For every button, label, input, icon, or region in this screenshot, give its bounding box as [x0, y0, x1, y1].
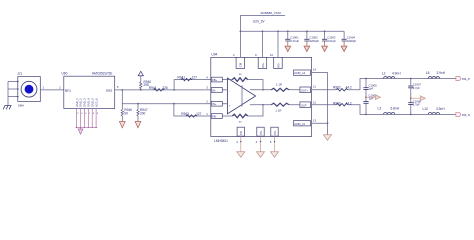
- svg-text:226: 226: [162, 86, 168, 90]
- svg-text:13: 13: [313, 118, 317, 122]
- svg-text:127: 127: [196, 112, 202, 116]
- svg-text:VS-: VS-: [273, 130, 277, 135]
- svg-text:50: 50: [124, 112, 128, 116]
- svg-text:10: 10: [270, 53, 274, 57]
- svg-text:CM: CM: [239, 62, 243, 67]
- svg-text:L10: L10: [423, 107, 429, 111]
- svg-text:12: 12: [313, 100, 317, 104]
- svg-text:R963: R963: [333, 101, 341, 105]
- svg-text:R962: R962: [333, 85, 341, 89]
- svg-text:VS-: VS-: [259, 130, 263, 135]
- svg-text:GND_2: GND_2: [79, 98, 83, 107]
- svg-text:L2: L2: [382, 71, 386, 75]
- svg-text:ADR680_VCM: ADR680_VCM: [260, 11, 281, 15]
- svg-text:3.9nH: 3.9nH: [436, 107, 445, 111]
- svg-text:3.9nH: 3.9nH: [437, 71, 446, 75]
- svg-text:R944: R944: [149, 86, 157, 90]
- svg-text:ACG_6: ACG_6: [94, 98, 98, 107]
- svg-text:1pF: 1pF: [369, 87, 374, 91]
- svg-text:4.9nH: 4.9nH: [392, 71, 401, 75]
- svg-text:IN6_P: IN6_P: [462, 77, 470, 81]
- svg-text:GND_14: GND_14: [294, 71, 305, 75]
- svg-text:OUT-: OUT-: [301, 103, 308, 107]
- svg-text:0.01uF: 0.01uF: [327, 39, 336, 43]
- svg-text:127: 127: [192, 75, 198, 79]
- svg-text:R941: R941: [178, 76, 186, 80]
- svg-text:GND_3: GND_3: [83, 98, 87, 107]
- svg-text:FB-: FB-: [212, 115, 217, 119]
- svg-text:11: 11: [313, 84, 316, 88]
- svg-text:200: 200: [140, 112, 146, 116]
- svg-text:U20_3V: U20_3V: [253, 19, 265, 23]
- svg-text:VS+: VS+: [276, 62, 280, 68]
- svg-text:RF1: RF1: [65, 89, 71, 93]
- svg-text:U60: U60: [62, 72, 68, 76]
- svg-text:2200pF: 2200pF: [310, 39, 320, 43]
- svg-text:44.2: 44.2: [346, 101, 352, 105]
- svg-text:FB+: FB+: [212, 78, 218, 82]
- svg-text:-: -: [229, 89, 230, 93]
- svg-text:1.1R: 1.1R: [276, 83, 282, 87]
- svg-text:LMH5401: LMH5401: [214, 139, 228, 143]
- svg-text:R943: R943: [181, 112, 189, 116]
- svg-text:J71: J71: [17, 72, 22, 76]
- svg-text:1.1R: 1.1R: [276, 108, 282, 112]
- svg-text:0.01uF: 0.01uF: [290, 39, 299, 43]
- svg-text:14: 14: [313, 67, 317, 71]
- svg-text:44.2: 44.2: [346, 85, 352, 89]
- svg-text:2.7pF: 2.7pF: [413, 86, 420, 90]
- svg-text:PD: PD: [239, 131, 243, 135]
- svg-text:GND_5: GND_5: [90, 98, 94, 107]
- svg-text:IN-: IN-: [212, 88, 216, 92]
- svg-text:U94: U94: [211, 53, 217, 57]
- svg-text:2.7pF: 2.7pF: [413, 103, 420, 107]
- svg-text:GND_4: GND_4: [87, 98, 91, 107]
- svg-text:RF2: RF2: [106, 89, 112, 93]
- svg-text:6.8nH: 6.8nH: [391, 107, 400, 111]
- svg-text:IN6_N: IN6_N: [462, 113, 470, 117]
- svg-text:GND_1: GND_1: [75, 98, 79, 107]
- svg-text:HMC652LP2E: HMC652LP2E: [92, 71, 112, 75]
- svg-text:2200pF: 2200pF: [347, 39, 357, 43]
- svg-text:SMA: SMA: [18, 103, 24, 107]
- svg-text:GND_11: GND_11: [294, 122, 305, 126]
- svg-text:L3: L3: [378, 107, 382, 111]
- svg-text:L8: L8: [426, 71, 430, 75]
- svg-text:IN+: IN+: [212, 102, 217, 106]
- svg-text:OUT+: OUT+: [301, 88, 309, 92]
- svg-text:VS+: VS+: [261, 62, 265, 68]
